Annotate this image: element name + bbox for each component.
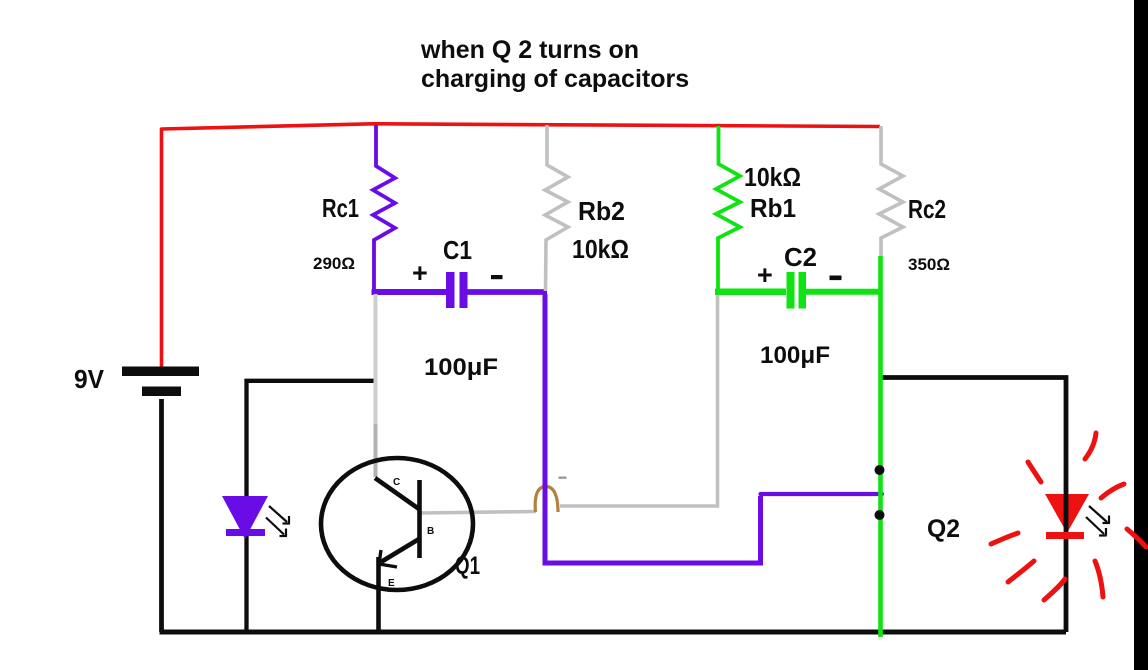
svg-text:Rc2: Rc2 [908, 194, 946, 224]
svg-text:350Ω: 350Ω [908, 255, 950, 274]
svg-text:10kΩ: 10kΩ [744, 162, 801, 192]
svg-text:B: B [427, 526, 434, 537]
svg-text:Rc1: Rc1 [322, 193, 359, 223]
svg-text:+: + [412, 258, 428, 288]
svg-text:10kΩ: 10kΩ [572, 234, 629, 264]
svg-text:C1: C1 [443, 235, 472, 265]
svg-text:290Ω: 290Ω [313, 254, 355, 273]
svg-text:100μF: 100μF [424, 354, 498, 381]
svg-text:C: C [393, 477, 400, 488]
svg-text:charging of capacitors: charging of capacitors [421, 65, 689, 93]
svg-text:E: E [388, 578, 395, 589]
svg-text:Q1: Q1 [455, 552, 480, 580]
svg-text:Q2: Q2 [927, 515, 960, 543]
svg-text:Rb1: Rb1 [750, 193, 796, 223]
svg-text:when Q 2 turns on: when Q 2 turns on [420, 36, 639, 64]
svg-text:+: + [757, 260, 773, 290]
svg-text:9V: 9V [74, 364, 105, 394]
svg-text:100μF: 100μF [760, 342, 830, 369]
svg-text:C2: C2 [784, 242, 817, 272]
svg-text:Rb2: Rb2 [578, 196, 625, 226]
